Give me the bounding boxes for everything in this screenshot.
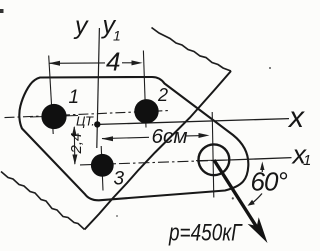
big hole vertical centerline — [212, 112, 214, 198]
speck — [116, 215, 118, 217]
svg-text:2,4: 2,4 — [68, 133, 85, 155]
svg-text:60°: 60° — [251, 167, 288, 197]
svg-text:1: 1 — [303, 152, 311, 169]
hole 1 horizontal centerline dash — [30, 116, 78, 118]
x1 axis solid part — [232, 158, 292, 160]
sheet 2 long edge crossing the plate — [85, 71, 232, 230]
plate outline — [19, 77, 248, 200]
rivet hole 3 — [91, 154, 114, 177]
scan corner mark top-left — [0, 9, 4, 13]
rivet hole 1 — [41, 104, 66, 129]
svg-text:y: y — [73, 12, 89, 40]
svg-text:4: 4 — [106, 47, 120, 77]
big hole horizontal crosshair — [196, 159, 232, 162]
hole 3 vertical centerline — [101, 146, 103, 191]
dimension 2,4 vertical — [73, 127, 76, 164]
svg-text:1: 1 — [69, 87, 80, 108]
svg-text:2: 2 — [157, 85, 168, 105]
svg-text:3: 3 — [114, 169, 125, 190]
hole 1 vertical centerline — [49, 56, 54, 135]
x axis (through CT) — [99, 119, 289, 125]
svg-text:6см: 6см — [152, 126, 188, 148]
sheet 2 break edge (bottom left, wavy) — [1, 172, 85, 230]
y1 axis vertical — [97, 28, 100, 148]
svg-text:x: x — [287, 101, 305, 134]
force P vector — [214, 160, 257, 228]
svg-text:p=450кГ: p=450кГ — [168, 220, 243, 247]
centerline through holes 1-2 (dash-dot) — [5, 111, 169, 118]
svg-text:1: 1 — [113, 28, 121, 44]
60 leader arrow to x1 axis (up tick) — [261, 164, 263, 172]
CT dot (centroid) — [94, 121, 100, 127]
hole 2 vertical centerline — [143, 51, 146, 128]
dimension 6cm: line and arrows — [102, 137, 149, 138]
dimension 4: line and arrows — [49, 62, 105, 64]
big hole — [199, 144, 230, 175]
rivet hole 2 — [134, 99, 158, 123]
speck — [232, 197, 234, 199]
svg-text:ЦТ.: ЦТ. — [76, 114, 94, 129]
60 leader arrow to force line — [251, 194, 263, 205]
centerline through hole 3 / big hole / x1 axis (dash-dot) — [80, 160, 232, 165]
speck — [269, 67, 271, 69]
sheet 2 break edge (top right, wavy) — [152, 28, 232, 72]
